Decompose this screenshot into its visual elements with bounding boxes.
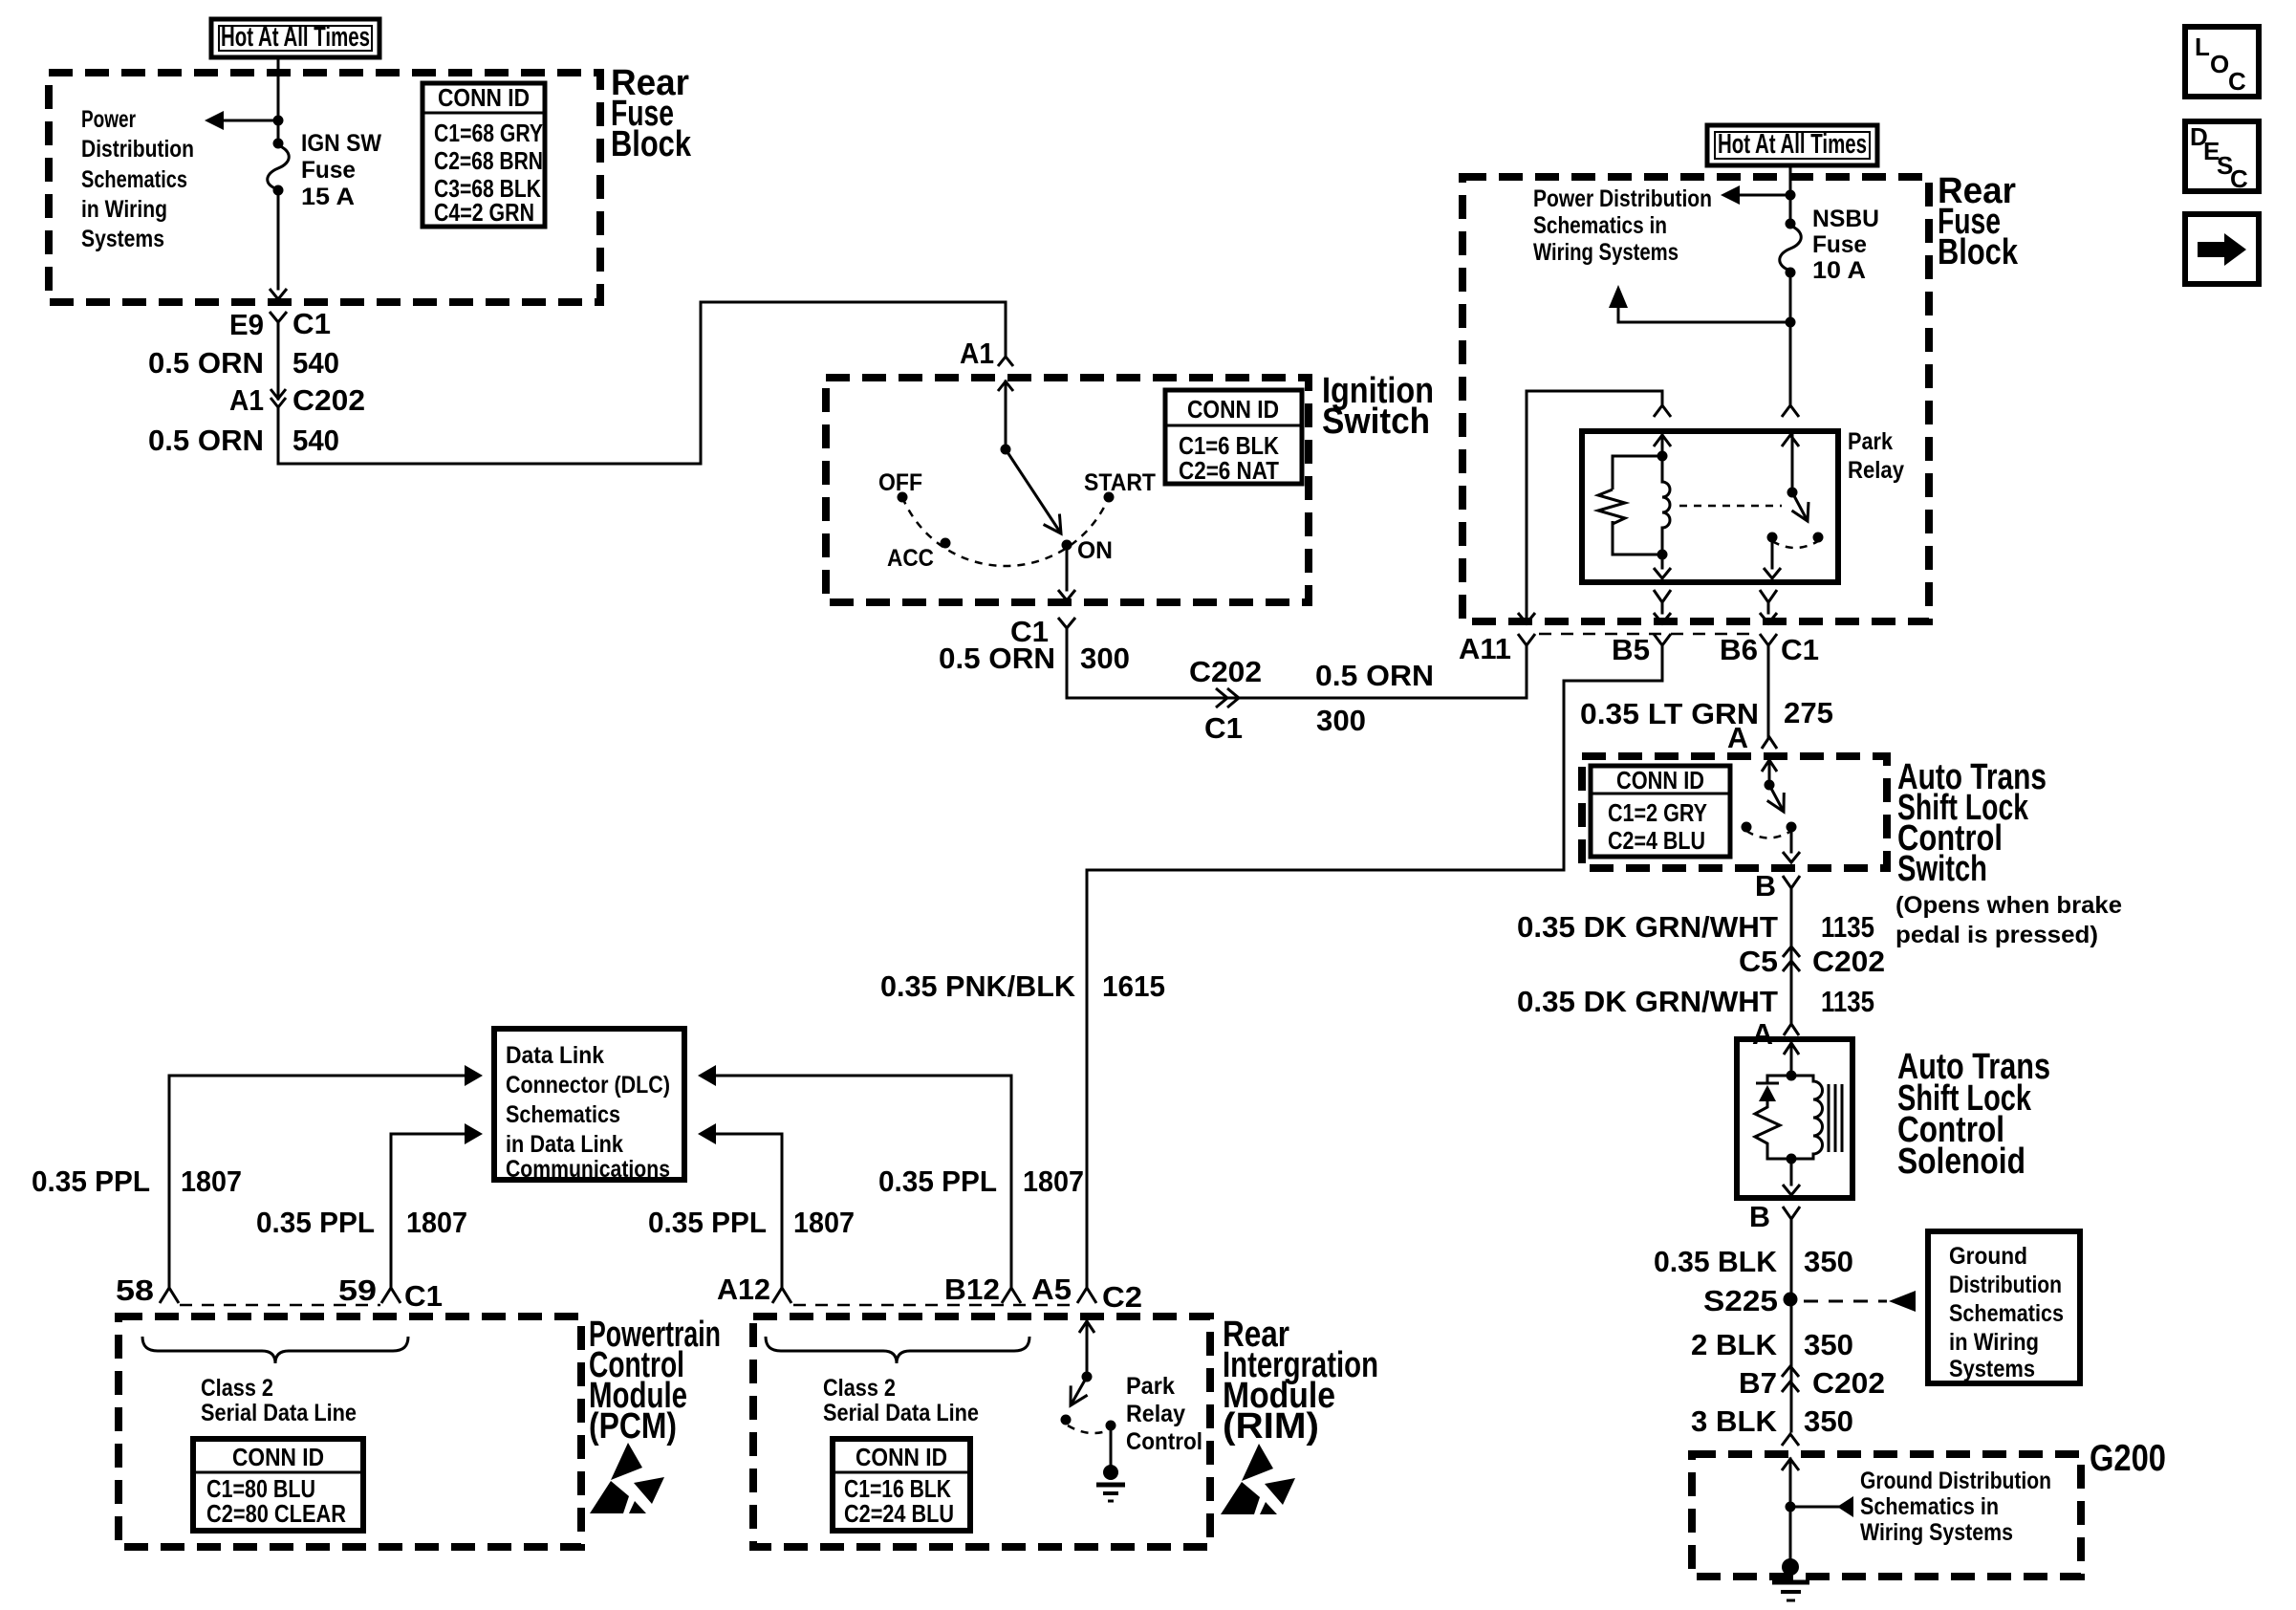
arrow at fuse block border (A11) [1518, 613, 1535, 623]
svg-text:0.35 PPL: 0.35 PPL [878, 1164, 997, 1198]
node branch dot to up-arrow [1786, 317, 1796, 328]
note Class 2 Serial Data Line (PCM) [201, 1375, 357, 1426]
chevron below relay box (switch) [1760, 590, 1777, 602]
svg-text:C202: C202 [1189, 655, 1262, 688]
relay switch arm [1792, 492, 1808, 521]
dashed box Rear Fuse Block (left) [49, 73, 600, 302]
arrow into RIM at A5/C2 [1079, 1321, 1094, 1333]
solenoid box Auto Trans Shift Lock Control Solenoid [1737, 1039, 1852, 1198]
node solenoid bottom junction [1787, 1154, 1797, 1164]
svg-text:C2: C2 [1102, 1280, 1142, 1314]
arrow at solenoid exit [1783, 1185, 1800, 1195]
svg-text:B7: B7 [1739, 1366, 1777, 1400]
node ON [1062, 540, 1072, 551]
wire branch to up arrow [1618, 308, 1790, 322]
connector chevron 58 [160, 1288, 179, 1303]
label Powertrain Control Module (PCM) [589, 1315, 721, 1447]
dashed box Ignition Switch [826, 378, 1309, 602]
wire B12 to DLC [716, 1076, 1011, 1288]
svg-text:C1: C1 [1204, 711, 1243, 745]
svg-text:0.35 DK GRN/WHT: 0.35 DK GRN/WHT [1517, 910, 1778, 944]
svg-text:C1=68 GRY: C1=68 GRY [434, 119, 543, 147]
arrow into DLC (from 58) [465, 1065, 483, 1086]
svg-text:L: L [2195, 33, 2210, 61]
svg-text:OFF: OFF [878, 469, 922, 496]
wire 0.5 ORN 540 run to ignition switch A1 [278, 302, 1006, 464]
svg-text:0.5 ORN: 0.5 ORN [148, 424, 264, 457]
svg-text:Relay: Relay [1126, 1401, 1185, 1427]
ESD symbol (RIM) [1221, 1444, 1295, 1514]
arrow to Power Distribution Schematics [205, 111, 224, 130]
note Power Distribution Schematics in Wiring Systems (left) [81, 106, 194, 252]
arrow into DLC (from A12) [698, 1123, 716, 1144]
svg-text:O: O [2210, 50, 2229, 78]
wire hot feed down to NSBU fuse [1789, 165, 1792, 224]
DLC reference box [494, 1029, 684, 1183]
svg-text:C2=4 BLU: C2=4 BLU [1608, 826, 1705, 855]
next-page arrow box [2185, 214, 2259, 284]
svg-text:10 A: 10 A [1812, 257, 1866, 284]
connector chevron B12 [1002, 1288, 1021, 1303]
wire B5 down-left-down (0.35 PNK/BLK 1615) [1087, 645, 1662, 1288]
svg-text:in Data Link: in Data Link [506, 1131, 623, 1158]
svg-text:A12: A12 [717, 1273, 770, 1306]
connector C202 pass-through (A1) double chevron [271, 389, 286, 407]
connector chevron A5 [1077, 1288, 1096, 1303]
svg-text:Wiring Systems: Wiring Systems [1533, 239, 1679, 266]
solenoid core bars [1829, 1084, 1842, 1152]
svg-text:Systems: Systems [1949, 1356, 2035, 1382]
svg-text:350: 350 [1804, 1404, 1853, 1438]
diode + resistor branch (solenoid) [1755, 1076, 1791, 1159]
arrow up to power distribution schematics [1609, 285, 1628, 308]
svg-text:Class 2: Class 2 [823, 1375, 896, 1402]
ground distribution reference box (right) [1928, 1231, 2080, 1383]
wire fuse output down to connector E9 [277, 193, 280, 289]
connector E9/C1 chevron [270, 312, 287, 322]
arrow at relay box exit (coil) [1654, 568, 1671, 578]
svg-text:2 BLK: 2 BLK [1691, 1328, 1778, 1361]
svg-text:Switch: Switch [1322, 402, 1430, 442]
svg-text:A5: A5 [1031, 1273, 1072, 1306]
wire 0.5 ORN 300 to rear fuse block A11 [1067, 628, 1527, 698]
node park relay control ground contact [1106, 1421, 1116, 1431]
svg-text:Wiring Systems: Wiring Systems [1860, 1519, 2013, 1546]
svg-text:1135: 1135 [1821, 910, 1874, 944]
node park relay control open contact [1061, 1415, 1072, 1425]
wire to park relay control switch pivot [1086, 1321, 1089, 1377]
svg-text:Power Distribution: Power Distribution [1533, 185, 1712, 212]
CONN ID table (Ignition Switch) [1165, 390, 1302, 485]
connector row dashed line (PCM) [180, 1304, 380, 1307]
svg-text:C1: C1 [292, 307, 331, 340]
connector B chevron (solenoid) [1783, 1207, 1800, 1219]
node splice S225 [1784, 1293, 1798, 1307]
wire to fuse block border (B6) [1767, 602, 1770, 613]
dashed box Powertrain Control Module [119, 1316, 581, 1547]
svg-text:A: A [1727, 721, 1748, 754]
dashed contact arc (park relay control) [1068, 1425, 1109, 1433]
svg-text:0.35 BLK: 0.35 BLK [1654, 1245, 1778, 1278]
svg-text:Serial Data Line: Serial Data Line [823, 1400, 979, 1426]
svg-text:350: 350 [1804, 1245, 1853, 1278]
arrow into park relay (switch side) [1782, 435, 1799, 446]
svg-text:C: C [2230, 164, 2248, 193]
connector C202 pass-through (horizontal) double chevron [1216, 688, 1239, 707]
node power branch dot [1786, 190, 1796, 201]
connector chevron 59 [381, 1288, 401, 1303]
svg-text:Ground: Ground [1949, 1243, 2027, 1270]
wire to switch pivot [1768, 760, 1771, 785]
CONN ID table (shift lock switch) [1591, 766, 1730, 857]
coil (solenoid) [1791, 1076, 1823, 1159]
node stationary contact (open side) [1742, 822, 1752, 833]
svg-text:0.5 ORN: 0.5 ORN [148, 346, 264, 380]
wire 0.5 ORN 540 segment 1 [277, 322, 280, 399]
arrow into DLC (from 59) [465, 1123, 483, 1144]
chevron below relay box (coil) [1654, 590, 1671, 602]
node switch pivot [1001, 445, 1011, 455]
dashed actuator link coil to switch [1679, 505, 1782, 508]
svg-text:Class 2: Class 2 [201, 1375, 273, 1402]
svg-text:Ground Distribution: Ground Distribution [1860, 1468, 2051, 1494]
svg-text:Hot At All Times: Hot At All Times [1718, 129, 1867, 160]
wire from Hot At All Times down to IGN SW fuse [277, 57, 280, 143]
node ACC [941, 538, 951, 549]
svg-text:0.35 DK GRN/WHT: 0.35 DK GRN/WHT [1517, 985, 1778, 1018]
label Park Relay [1848, 428, 1904, 484]
wire to fuse block border (B5) [1661, 602, 1664, 613]
svg-text:C1: C1 [1781, 633, 1819, 666]
wire A12 to DLC [716, 1134, 782, 1288]
svg-text:A1: A1 [960, 337, 994, 370]
svg-text:A: A [1752, 1017, 1773, 1051]
wire coil output down (B5) [1661, 553, 1664, 568]
svg-text:Communications: Communications [506, 1156, 670, 1183]
wire B6 down to auto trans switch A [1767, 645, 1770, 737]
connector chevron at park relay coil feed [1654, 405, 1671, 417]
node park relay control pivot [1082, 1372, 1093, 1382]
svg-text:CONN ID: CONN ID [856, 1443, 947, 1471]
svg-text:0.35 PNK/BLK: 0.35 PNK/BLK [880, 969, 1076, 1003]
wire contact to B [1790, 832, 1793, 852]
LOC navigation box [2185, 27, 2259, 97]
ground G200 symbol [1772, 1558, 1809, 1600]
node relay moving contact [1813, 533, 1824, 543]
svg-text:Hot At All Times: Hot At All Times [221, 22, 370, 53]
svg-text:Schematics: Schematics [506, 1101, 620, 1128]
svg-text:1807: 1807 [793, 1206, 855, 1239]
wire solenoid B to S225 [1790, 1219, 1793, 1431]
svg-text:B5: B5 [1612, 633, 1650, 666]
svg-text:B12: B12 [944, 1273, 1000, 1306]
node OFF [898, 492, 908, 503]
svg-text:Data Link: Data Link [506, 1042, 604, 1069]
ground symbol (park relay control) [1096, 1465, 1125, 1501]
wire NSBU fuse output down [1789, 275, 1792, 405]
svg-text:CONN ID: CONN ID [438, 83, 530, 112]
svg-text:Relay: Relay [1848, 457, 1904, 484]
svg-text:C1=2 GRY: C1=2 GRY [1608, 798, 1707, 827]
arrow into shift lock switch [1762, 760, 1777, 772]
park relay box [1582, 431, 1838, 582]
shift lock switch arm arrowhead [1767, 793, 1785, 812]
connector row dashed line (RIM) [793, 1304, 1076, 1307]
svg-text:C1: C1 [404, 1279, 443, 1313]
node coil bottom junction [1657, 550, 1668, 560]
svg-text:Fuse: Fuse [1812, 231, 1867, 258]
node output contact [1787, 822, 1797, 833]
svg-text:0.35 PPL: 0.35 PPL [648, 1206, 767, 1239]
svg-text:(RIM): (RIM) [1223, 1406, 1319, 1447]
connector B5 chevron [1654, 634, 1671, 645]
svg-text:Solenoid: Solenoid [1897, 1142, 2025, 1182]
arrow into ignition switch [998, 381, 1013, 391]
dashed contact arc (shift lock switch) [1746, 831, 1791, 838]
node junction dot at power branch [273, 116, 284, 126]
node relay stationary contact [1767, 533, 1778, 543]
power label box "Hot At All Times" (right) [1707, 125, 1877, 165]
wire solenoid output down [1790, 1159, 1793, 1185]
arrow to Power Distribution Schematics (right) [1721, 185, 1740, 205]
arrow to ground distribution note [1837, 1496, 1853, 1517]
note Ground Distribution Schematics in Wiring Systems (G200) [1860, 1468, 2051, 1546]
connector chevron at park relay B6 feed [1782, 405, 1799, 417]
wire contact to chassis ground [1110, 1430, 1113, 1465]
svg-text:0.35 PPL: 0.35 PPL [256, 1206, 375, 1239]
svg-text:Park: Park [1848, 428, 1893, 455]
power label box "Hot At All Times" (left) [211, 19, 379, 57]
connector B6 chevron [1760, 634, 1777, 645]
park relay control arm arrowhead [1071, 1385, 1088, 1405]
svg-text:275: 275 [1784, 696, 1833, 729]
svg-text:58: 58 [116, 1273, 154, 1307]
svg-text:B6: B6 [1720, 633, 1758, 666]
svg-text:S225: S225 [1703, 1284, 1778, 1317]
ESD symbol (PCM) [590, 1443, 664, 1513]
connector chevron at A1 ignition entry [998, 357, 1013, 366]
node solenoid top junction [1787, 1071, 1797, 1081]
label Rear Fuse Block (right) [1938, 171, 2019, 272]
svg-text:1807: 1807 [181, 1164, 242, 1198]
svg-text:Fuse: Fuse [301, 157, 356, 184]
svg-text:Serial Data Line: Serial Data Line [201, 1400, 357, 1426]
svg-text:pedal is pressed): pedal is pressed) [1895, 922, 2098, 948]
dashed box Rear Fuse Block (right) [1462, 177, 1929, 621]
svg-text:CONN ID: CONN ID [232, 1443, 324, 1471]
node coil top junction [1657, 451, 1668, 462]
svg-text:540: 540 [292, 346, 339, 380]
svg-text:Schematics in: Schematics in [1533, 212, 1667, 239]
svg-text:C2=24 BLU: C2=24 BLU [844, 1499, 954, 1528]
svg-text:C202: C202 [1812, 945, 1885, 978]
svg-text:Schematics: Schematics [81, 166, 187, 193]
svg-text:Power: Power [81, 106, 136, 133]
brace Class 2 (RIM) [766, 1337, 1029, 1363]
svg-text:59: 59 [338, 1273, 377, 1307]
resistor (park relay, parallel with coil) [1598, 456, 1662, 555]
svg-text:C2=80 CLEAR: C2=80 CLEAR [206, 1499, 346, 1528]
label Park Relay Control [1126, 1373, 1202, 1455]
note Power Distribution Schematics in Wiring Systems (right) [1533, 185, 1712, 266]
svg-text:in Wiring: in Wiring [1949, 1329, 2039, 1356]
svg-text:0.5 ORN: 0.5 ORN [939, 642, 1055, 675]
svg-text:B: B [1755, 869, 1776, 903]
svg-text:A1: A1 [229, 383, 264, 417]
dashed contact arc (park relay) [1772, 541, 1818, 548]
node START [1104, 492, 1115, 503]
svg-text:Block: Block [1938, 232, 2019, 272]
svg-text:B: B [1749, 1200, 1770, 1233]
coil (park relay) [1662, 456, 1670, 555]
svg-text:CONN ID: CONN ID [1616, 766, 1704, 794]
switch arm arrowhead [1044, 514, 1061, 534]
arrow to ground distribution box [1889, 1291, 1916, 1312]
arrow at ignition switch exit [1058, 590, 1075, 600]
svg-text:Distribution: Distribution [1949, 1272, 2062, 1298]
svg-text:C5: C5 [1739, 945, 1778, 978]
svg-text:Control: Control [1126, 1428, 1202, 1455]
arrow at relay box exit (switch) [1764, 568, 1781, 578]
label IGN SW Fuse 15 A [301, 130, 381, 210]
svg-text:Connector (DLC): Connector (DLC) [506, 1072, 670, 1099]
svg-text:0.5 ORN: 0.5 ORN [1315, 659, 1434, 692]
wire branch to power distribution arrow [1739, 194, 1790, 197]
wire B down to solenoid A [1790, 888, 1793, 1024]
svg-text:C202: C202 [292, 383, 365, 417]
svg-text:G200: G200 [2090, 1438, 2166, 1479]
connector arrow at fuse block exit [270, 289, 287, 299]
connector chevron at switch A [1762, 737, 1777, 749]
shift lock switch arm [1769, 785, 1784, 812]
label Ignition Switch [1322, 371, 1434, 442]
connector chevron at solenoid A [1784, 1024, 1799, 1035]
svg-text:in Wiring: in Wiring [81, 196, 167, 223]
dashed reference line from S225 [1804, 1300, 1887, 1303]
arrow into park relay (coil side) [1654, 435, 1671, 446]
svg-text:(Opens when brake: (Opens when brake [1895, 892, 2122, 919]
svg-text:NSBU: NSBU [1812, 206, 1879, 232]
arrow at fuse block border (B5) [1654, 613, 1671, 623]
relay switch arm arrowhead [1792, 502, 1809, 521]
wire branch to Power Distribution reference arrow [223, 120, 278, 122]
wire branch to ground reference arrow [1790, 1506, 1839, 1509]
CONN ID table (PCM) [193, 1439, 363, 1531]
label Rear Intergration Module (RIM) [1223, 1315, 1378, 1447]
node ground branch dot [1786, 1502, 1796, 1512]
label Auto Trans Shift Lock Control Switch [1895, 757, 2122, 948]
svg-text:0.35 PPL: 0.35 PPL [32, 1164, 150, 1198]
wire coil top [1661, 435, 1664, 455]
connector A11 chevron [1518, 634, 1535, 645]
svg-text:540: 540 [292, 424, 339, 457]
wire A11 riser and coil feed [1527, 391, 1662, 623]
dashed arc of ignition switch positions [902, 497, 1109, 566]
dashed box Rear Intergration Module [753, 1316, 1210, 1547]
svg-text:1135: 1135 [1821, 985, 1874, 1018]
svg-text:1807: 1807 [406, 1206, 467, 1239]
arrow at switch exit B [1783, 852, 1800, 862]
note Class 2 Serial Data Line (RIM) [823, 1375, 979, 1426]
wire to solenoid top junction [1790, 1043, 1793, 1076]
switch arm (ignition, pointing to ON) [1006, 449, 1061, 533]
connector C202 pass-through B7 double chevron [1782, 1366, 1799, 1392]
svg-text:350: 350 [1804, 1328, 1853, 1361]
label Rear Fuse Block (left) [611, 63, 692, 164]
svg-text:C4=2 GRN: C4=2 GRN [434, 198, 534, 227]
connector row dashed line C1 [1539, 633, 1759, 636]
svg-text:Park: Park [1126, 1373, 1175, 1400]
node relay switch pivot [1787, 488, 1798, 498]
arrow into G200 [1782, 1459, 1799, 1470]
label Auto Trans Shift Lock Control Solenoid [1897, 1047, 2050, 1182]
svg-text:15 A: 15 A [301, 184, 355, 210]
CONN ID table (RIM) [833, 1439, 970, 1531]
svg-text:ACC: ACC [887, 545, 934, 572]
svg-text:C2=68 BRN: C2=68 BRN [434, 146, 543, 175]
wire 59 to DLC [391, 1134, 465, 1288]
brace Class 2 (PCM) [142, 1337, 408, 1363]
wire to ground point [1789, 1459, 1792, 1560]
connector C1 chevron below ignition switch [1058, 618, 1075, 628]
svg-text:ON: ON [1077, 537, 1113, 564]
svg-text:START: START [1084, 469, 1156, 496]
park relay control switch arm [1071, 1377, 1087, 1405]
svg-text:IGN SW: IGN SW [301, 130, 381, 157]
CONN ID table (Rear Fuse Block left) [422, 83, 545, 227]
svg-text:1807: 1807 [1023, 1164, 1084, 1198]
svg-text:CONN ID: CONN ID [1187, 395, 1279, 424]
wire to relay switch pivot [1791, 435, 1794, 492]
svg-text:A11: A11 [1459, 632, 1511, 665]
connector B chevron [1783, 876, 1800, 888]
wire 58 to DLC [169, 1076, 465, 1288]
svg-text:3 BLK: 3 BLK [1691, 1404, 1778, 1438]
svg-text:Switch: Switch [1897, 849, 1987, 889]
DESC navigation box [2185, 121, 2259, 193]
connector chevron A12 [772, 1288, 791, 1303]
svg-text:1615: 1615 [1102, 969, 1165, 1003]
arrow at fuse block border (B6) [1760, 613, 1777, 623]
svg-text:C202: C202 [1812, 1366, 1885, 1400]
connector chevron at G200 [1782, 1434, 1799, 1446]
wire into switch common [1005, 381, 1007, 449]
arrow into solenoid [1784, 1043, 1799, 1055]
svg-text:300: 300 [1316, 704, 1366, 737]
svg-text:Schematics in: Schematics in [1860, 1493, 1999, 1520]
fuse NSBU 10 A symbol [1780, 219, 1802, 278]
label NSBU Fuse 10 A [1812, 206, 1879, 284]
svg-text:Distribution: Distribution [81, 136, 194, 163]
wire ON contact down to C1 [1066, 550, 1069, 590]
svg-text:(PCM): (PCM) [589, 1406, 677, 1447]
connector C202 pass-through C5 double chevron [1783, 946, 1800, 971]
dashed box G200 ground [1692, 1454, 2081, 1577]
svg-text:Block: Block [611, 124, 692, 164]
svg-text:E9: E9 [229, 308, 264, 341]
svg-text:Schematics: Schematics [1949, 1300, 2064, 1327]
arrow into DLC (from B12) [698, 1065, 716, 1086]
node shift lock switch pivot [1765, 780, 1775, 791]
svg-text:C2=6 NAT: C2=6 NAT [1179, 456, 1279, 485]
fuse IGN SW 15 A symbol [268, 139, 290, 196]
dashed box Auto Trans Shift Lock Control Switch [1582, 756, 1887, 868]
svg-text:C: C [2228, 67, 2246, 96]
wire switch output down (B6) [1771, 542, 1774, 568]
svg-text:Systems: Systems [81, 226, 164, 252]
svg-text:300: 300 [1080, 642, 1130, 675]
